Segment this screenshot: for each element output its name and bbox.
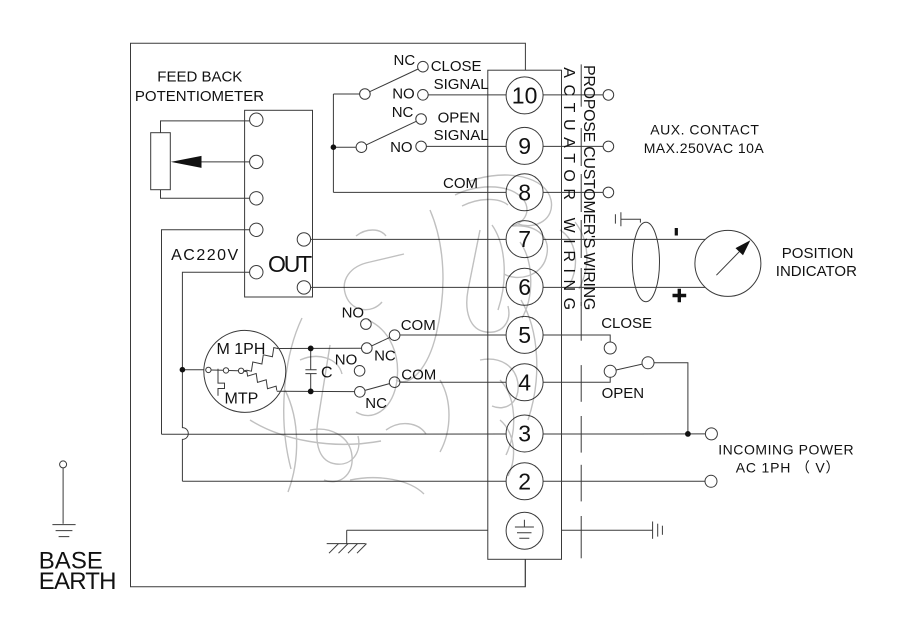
S2 NC contact [416, 114, 427, 125]
limit switch SB COM contact [389, 377, 400, 388]
block pin 5 [250, 266, 263, 279]
terminal strip bottom stub to enclosure [524, 559, 526, 586]
wire upper winding to capacitor node A [278, 347, 361, 349]
motor internal wire pin2-pin3 [229, 370, 239, 372]
position indicator meter body [695, 230, 761, 296]
terminal 6 [506, 268, 543, 305]
svg-text:MAX.250VAC 10A: MAX.250VAC 10A [644, 140, 765, 156]
pushbutton blade (OPEN-common) [616, 364, 642, 370]
chassis ground symbol [327, 544, 367, 554]
svg-text:EARTH: EARTH [39, 568, 116, 595]
junction dot pushbutton to W3 [685, 431, 691, 437]
svg-text:FEED BACK: FEED BACK [157, 68, 242, 85]
terminal 5 [506, 316, 543, 353]
customer wiring tick row 10 [580, 64, 582, 106]
S2 NO contact [416, 141, 427, 152]
pushbutton common contact [642, 357, 654, 369]
svg-text:OUT: OUT [268, 251, 312, 277]
actuator enclosure boundary [131, 43, 526, 586]
terminal 9 [506, 127, 543, 164]
customer wiring tick row 2 [580, 465, 582, 502]
external earth symbol (right) [653, 522, 663, 539]
block pin 6 (OUT +) [297, 233, 310, 246]
motor main winding (upper) [244, 348, 278, 372]
aux contact terminal (row 9) [603, 141, 614, 152]
svg-text:INDICATOR: INDICATOR [776, 263, 857, 280]
connector block (AC220V / OUT) [245, 110, 313, 297]
limit switch SB NO contact [354, 366, 365, 377]
customer wiring tick earth row [580, 516, 582, 558]
aux contact terminal (row 8) [603, 187, 614, 198]
junction dot capacitor node B [308, 389, 314, 395]
svg-text:NC: NC [392, 104, 414, 121]
wire W5 (motor close winding to terminal 5 to CLOSE button) [400, 335, 610, 342]
wire W10 (close signal NO to terminal 10 to aux contact) [428, 94, 603, 96]
block pin 3 [250, 192, 263, 205]
earth terminal ground symbol [515, 520, 534, 539]
indicator shield capacitor symbol [615, 212, 640, 226]
svg-text:3: 3 [518, 421, 531, 447]
wire W9 (open signal NO to terminal 9 to aux contact) [426, 145, 603, 147]
terminal 10 [506, 77, 543, 114]
customer wiring tick row 8 [580, 174, 582, 212]
terminal 7 [506, 221, 543, 258]
svg-text:CLOSE: CLOSE [601, 315, 652, 332]
limit switch SA NO contact [361, 319, 372, 330]
svg-text:AC220V: AC220V [171, 247, 240, 264]
indicator cable ellipse [632, 222, 659, 301]
wire lower winding to capacitor node B [277, 390, 355, 392]
svg-text:4: 4 [518, 369, 531, 395]
junction dot rail-S2 [331, 144, 337, 150]
customer wiring tick row 3 [580, 416, 582, 453]
customer wiring tick row 7 [580, 220, 582, 258]
svg-text:NO: NO [342, 304, 365, 321]
svg-text:AC 1PH （ V）: AC 1PH （ V） [736, 460, 841, 476]
junction dot motor common / net N [180, 367, 186, 373]
svg-text:NC: NC [374, 348, 396, 365]
svg-text:POSITION: POSITION [782, 245, 854, 262]
svg-text:SIGNAL: SIGNAL [434, 127, 489, 144]
base earth lead [62, 468, 64, 524]
limit switch SB NC contact [355, 387, 366, 398]
customer wiring tick row 6 [580, 268, 582, 306]
svg-text:INCOMING POWER: INCOMING POWER [718, 441, 854, 457]
block pin 4 [250, 223, 263, 236]
svg-text:SIGNAL: SIGNAL [434, 76, 489, 93]
label minus polarity [675, 228, 678, 236]
wire pot bottom to block pin 3 [161, 190, 250, 199]
motor pin 1 [206, 367, 211, 372]
wire WG left (chassis ground to earth terminal) [347, 530, 488, 543]
S1 NO contact [418, 90, 429, 101]
motor aux winding (lower) [244, 371, 277, 390]
svg-text:NO: NO [390, 139, 413, 156]
label plus polarity [673, 289, 687, 303]
wire pot top to block pin 1 [161, 121, 250, 133]
wire W8 (COM to terminal 8 to aux contact) [333, 191, 603, 193]
open signal switch S2 blade [366, 121, 416, 145]
base earth electrode [60, 461, 67, 468]
svg-text:7: 7 [518, 226, 531, 252]
earth terminal [506, 512, 543, 549]
motor M1 body [204, 330, 286, 412]
svg-text:M 1PH: M 1PH [217, 341, 266, 358]
motor thermal protector MTP symbol [218, 369, 225, 396]
svg-text:OPEN: OPEN [438, 110, 481, 127]
S2 pivot contact [356, 142, 367, 153]
customer wiring tick row 9 [580, 128, 582, 166]
limit switch SA blade (NC-COM) [372, 337, 390, 346]
junction dot capacitor node A [308, 346, 314, 352]
potentiometer RP body [151, 133, 171, 190]
block pin 7 (OUT -) [297, 281, 310, 294]
wire W3 (incoming power L to terminal 3) [162, 433, 706, 435]
svg-text:OPEN: OPEN [602, 385, 645, 402]
wire pushbutton common to W3 junction [654, 363, 688, 434]
terminal strip TB [488, 70, 562, 559]
wire W2 (incoming power N to terminal 2) [182, 480, 705, 482]
potentiometer wiper arrow [171, 156, 202, 168]
wire rail to S1 pivot [333, 93, 359, 95]
capacitor C plates [305, 370, 316, 374]
motor pin 3 [238, 368, 243, 373]
wire WG right (earth terminal to external earth) [562, 529, 653, 531]
incoming power terminal N [705, 475, 717, 487]
svg-text:NO: NO [392, 86, 415, 103]
svg-text:9: 9 [518, 133, 531, 159]
svg-text:COM: COM [401, 317, 436, 334]
customer wiring tick row 5 [580, 302, 582, 341]
svg-text:5: 5 [518, 322, 531, 348]
svg-text:2: 2 [518, 468, 531, 494]
wire rail to S2 pivot [333, 146, 356, 148]
incoming power terminal L [705, 428, 717, 440]
svg-text:MTP: MTP [225, 391, 259, 408]
terminal 2 [506, 463, 543, 500]
S1 NC contact [418, 61, 429, 72]
wire motor common to net N junction [182, 369, 204, 371]
terminal 8 [506, 174, 543, 211]
svg-text:NC: NC [394, 52, 416, 69]
S1 pivot contact [360, 89, 371, 100]
wire pot wiper to block pin 2 [202, 161, 250, 163]
motor internal wire pin1-pin2 [211, 369, 223, 371]
svg-text:PROPOSE CUSTOMER'S WIRING: PROPOSE CUSTOMER'S WIRING [580, 65, 597, 310]
terminal 4 [506, 364, 543, 401]
svg-text:AUX. CONTACT: AUX. CONTACT [650, 122, 759, 138]
wire block pin 5 to net N with hop over W3 [182, 272, 249, 481]
motor pin 2 [223, 368, 228, 373]
wire block pin 4 to net L (AC220V) [162, 230, 250, 434]
limit switch SA NC contact [362, 343, 373, 354]
terminal 3 [506, 415, 543, 452]
CLOSE pushbutton contact [604, 342, 616, 354]
customer wiring tick row 4 [580, 365, 582, 402]
signal switch common rail [332, 94, 334, 192]
meter needle arrowhead [736, 240, 751, 255]
svg-text:CLOSE: CLOSE [431, 58, 482, 75]
aux contact terminal (row 10) [603, 90, 614, 101]
close signal switch S1 blade [370, 69, 418, 92]
wire W4 (motor open winding to terminal 4 to OPEN button) [400, 377, 610, 382]
svg-text:COM: COM [443, 175, 478, 192]
watermark [250, 175, 587, 494]
OPEN pushbutton contact [604, 365, 616, 377]
capacitor C leads [310, 348, 312, 391]
meter needle [716, 252, 739, 276]
svg-text:ACTUATOR WIRING: ACTUATOR WIRING [560, 67, 577, 317]
block pin 1 [250, 113, 263, 126]
wire W6 (OUT- to terminal 6 to position indicator) [311, 286, 706, 288]
svg-text:10: 10 [512, 82, 538, 108]
svg-text:POTENTIOMETER: POTENTIOMETER [135, 88, 264, 105]
limit switch SB blade (NC-COM) [365, 384, 390, 391]
wire W7 (OUT+ to terminal 7 to position indicator) [311, 238, 706, 240]
block pin 2 [250, 155, 263, 168]
base earth ground symbol [52, 525, 75, 537]
limit switch SA COM contact [389, 330, 400, 341]
